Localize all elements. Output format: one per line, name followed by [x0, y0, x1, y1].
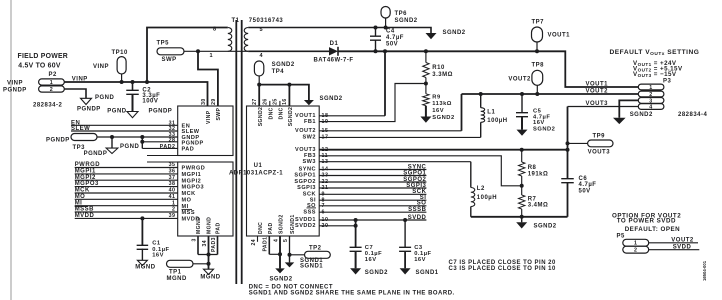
net label SGPO2: [319, 181, 426, 183]
svg-text:PAD: PAD: [215, 222, 221, 234]
net label SO: [319, 205, 426, 207]
svg-text:SWP: SWP: [216, 107, 222, 120]
capacitor C1: [140, 216, 144, 220]
wire SGND2 bottom rail: [471, 216, 568, 218]
wire VOUT2 pin: [319, 130, 461, 132]
svg-text:PAD2: PAD2: [160, 144, 176, 150]
wire VOUT2 rail: [462, 93, 639, 95]
resistor R9: [425, 84, 427, 94]
svg-text:3: 3: [191, 238, 197, 241]
svg-text:1: 1: [210, 53, 214, 59]
svg-text:SGND2: SGND2: [533, 126, 555, 132]
svg-text:SGND2: SGND2: [630, 112, 653, 118]
svg-text:113kΩ: 113kΩ: [432, 101, 452, 107]
svg-text:282834-4: 282834-4: [678, 112, 707, 118]
svg-text:SGND2: SGND2: [443, 30, 466, 36]
svg-text:PAD1: PAD1: [263, 237, 269, 252]
ground PGND at C2: [127, 112, 138, 118]
svg-text:SGND2: SGND2: [269, 277, 292, 283]
svg-text:SGPO1: SGPO1: [294, 173, 316, 179]
svg-text:U1: U1: [254, 163, 263, 169]
svg-text:50V: 50V: [386, 42, 398, 48]
capacitor C7: [355, 220, 357, 247]
svg-text:FIELD POWER: FIELD POWER: [18, 53, 69, 60]
svg-text:L2: L2: [477, 186, 485, 192]
wire MGND join: [198, 254, 218, 256]
svg-text:29: 29: [211, 98, 217, 104]
svg-text:TP2: TP2: [309, 246, 322, 252]
ground SGND2 at pin4: [275, 268, 285, 273]
net label SGPO1: [319, 175, 426, 177]
svg-text:SGPI3: SGPI3: [297, 185, 316, 191]
svg-text:SWP: SWP: [162, 57, 177, 63]
svg-text:34: 34: [202, 240, 208, 246]
svg-text:41: 41: [169, 194, 176, 200]
resistor R7: [521, 186, 523, 195]
ground SGND2 at pin5 rail: [426, 33, 437, 39]
svg-text:SSS: SSS: [303, 209, 316, 215]
wire T1 pin1 to TP5 and SWP pin: [184, 50, 248, 52]
svg-text:191kΩ: 191kΩ: [528, 172, 549, 178]
svg-text:PGND: PGND: [120, 144, 139, 150]
svg-text:SGND2: SGND2: [534, 224, 557, 230]
svg-text:PAD3: PAD3: [211, 237, 217, 252]
svg-text:16504-001: 16504-001: [702, 260, 707, 281]
svg-text:3.4MΩ: 3.4MΩ: [528, 203, 549, 209]
svg-text:32: 32: [169, 126, 176, 132]
svg-text:C6: C6: [579, 176, 588, 182]
svg-text:PGNDP: PGNDP: [84, 151, 108, 157]
svg-text:SGND1: SGND1: [300, 264, 323, 270]
svg-text:C7 IS PLACED CLOSE TO PIN 20: C7 IS PLACED CLOSE TO PIN 20: [449, 260, 557, 266]
wire VOUT1 rail: [338, 51, 638, 87]
svg-text:VOUT1: VOUT1: [586, 82, 609, 88]
svg-text:VOUT3: VOUT3: [588, 150, 611, 156]
svg-text:DEFAULT: OPEN: DEFAULT: OPEN: [625, 226, 680, 233]
diode D1: [248, 50, 329, 52]
svg-text:28: 28: [169, 137, 176, 143]
svg-text:4: 4: [260, 53, 264, 59]
svg-text:TP6: TP6: [395, 11, 408, 17]
test point TP2: [290, 254, 305, 256]
svg-text:25: 25: [272, 98, 278, 104]
svg-text:L1: L1: [487, 109, 495, 115]
svg-text:VINP: VINP: [93, 64, 109, 70]
test point TP1: [167, 260, 194, 267]
svg-text:R7: R7: [528, 196, 537, 202]
wire VOUT3 vertical: [567, 107, 569, 179]
svg-text:PGNDP: PGNDP: [149, 108, 173, 114]
svg-text:SVDD: SVDD: [673, 244, 692, 250]
op-amp U1 left box A: [178, 106, 233, 156]
svg-text:16V: 16V: [365, 257, 377, 263]
ground MGND at TP1: [204, 269, 214, 274]
net label SYNC: [319, 169, 426, 171]
net label SVDD at P5: [649, 249, 700, 251]
svg-text:MGPO3: MGPO3: [182, 185, 205, 191]
ground PGND at TP3: [111, 137, 113, 148]
svg-text:TP7: TP7: [532, 20, 545, 26]
svg-text:R8: R8: [528, 165, 537, 171]
svg-text:PGNDP: PGNDP: [46, 138, 70, 144]
ground MGND at C1: [137, 260, 147, 265]
ground SGND2 at P3: [613, 118, 626, 124]
svg-text:SGPI3: SGPI3: [406, 183, 426, 189]
ground SGND1 at pin5: [289, 255, 291, 263]
wire VOUT3 rail: [319, 149, 567, 151]
svg-text:PWRGD: PWRGD: [182, 166, 206, 172]
svg-text:DNC: DNC: [268, 107, 274, 119]
wire FB1 to divider: [319, 84, 426, 122]
svg-text:4.7µF: 4.7µF: [386, 35, 404, 41]
ground PGND at P2: [81, 98, 92, 104]
svg-text:16V: 16V: [533, 120, 545, 126]
svg-text:TP3: TP3: [73, 145, 86, 151]
wire VOUT1 pin to rail: [319, 115, 385, 117]
svg-text:FB1: FB1: [304, 119, 316, 125]
svg-text:100V: 100V: [142, 99, 158, 105]
transformer T1 secondary winding: [244, 28, 248, 52]
svg-text:4.5V TO 60V: 4.5V TO 60V: [18, 62, 61, 69]
svg-text:SSSB: SSSB: [408, 207, 426, 213]
svg-text:38: 38: [169, 181, 176, 187]
svg-text:SGND2: SGND2: [320, 96, 343, 102]
svg-text:SGND2: SGND2: [395, 18, 418, 24]
svg-text:P2: P2: [49, 72, 57, 78]
svg-text:PAD: PAD: [268, 222, 274, 234]
wire PGNDP pin 28: [141, 137, 143, 148]
svg-text:SVDD: SVDD: [408, 215, 427, 221]
svg-text:VOUT2: VOUT2: [671, 237, 694, 243]
resistor R10: [424, 49, 428, 53]
svg-text:TP5: TP5: [157, 41, 170, 47]
svg-text:R10: R10: [432, 65, 445, 71]
svg-text:SW2: SW2: [302, 135, 316, 141]
wire VINP to T1 pin8: [145, 80, 149, 84]
ground SGND2 at R9: [420, 117, 431, 123]
svg-text:VINP: VINP: [72, 77, 88, 83]
svg-text:VOUT1: VOUT1: [548, 32, 571, 38]
svg-text:PGND: PGND: [107, 109, 126, 115]
ground SGND2 at C5: [517, 130, 528, 136]
resistor R8: [521, 150, 523, 162]
net label SI: [319, 199, 426, 201]
test point TP4: [254, 61, 263, 76]
svg-text:PGND: PGND: [95, 95, 114, 101]
net label SGPI3: [319, 187, 426, 189]
wire FB3 to divider: [319, 156, 522, 186]
wire SVDD2 pin: [319, 225, 355, 227]
svg-text:3.3MΩ: 3.3MΩ: [432, 72, 453, 78]
svg-text:16: 16: [282, 98, 288, 104]
net label SVDD: [319, 219, 426, 221]
capacitor C2: [131, 80, 135, 84]
svg-text:37: 37: [169, 175, 176, 181]
svg-text:DEFAULT VOUTx SETTING: DEFAULT VOUTx SETTING: [610, 49, 700, 57]
wire PAD2: [142, 147, 177, 149]
svg-text:BAT46W-7-F: BAT46W-7-F: [313, 58, 353, 64]
svg-text:16V: 16V: [152, 253, 164, 259]
svg-text:1: 1: [649, 85, 652, 91]
svg-text:2: 2: [172, 207, 175, 213]
svg-text:282834-2: 282834-2: [33, 103, 62, 109]
svg-text:PGNDP: PGNDP: [77, 107, 101, 113]
inductor L1: [480, 122, 482, 137]
svg-text:4.7µF: 4.7µF: [579, 182, 597, 188]
svg-text:DNC: DNC: [258, 222, 264, 234]
svg-text:VINP: VINP: [7, 80, 23, 86]
op-amp U1 left box B: [178, 162, 233, 236]
svg-text:VINP: VINP: [206, 110, 212, 124]
svg-text:TP9: TP9: [593, 134, 606, 140]
capacitor C4: [374, 26, 378, 30]
wire VINP rail: [64, 82, 207, 106]
ground SGND1 at C3: [400, 268, 411, 274]
svg-text:100µH: 100µH: [477, 195, 497, 201]
svg-text:1: 1: [172, 200, 175, 206]
svg-text:MO: MO: [182, 197, 192, 203]
ground SGND2 at C7: [350, 268, 361, 274]
U1 box divider extension lines: [147, 155, 178, 157]
svg-text:MGPI1: MGPI1: [182, 172, 202, 178]
svg-text:SW3: SW3: [302, 159, 316, 165]
svg-text:VOUT2: VOUT2: [295, 128, 316, 134]
wire TP3 to GNDP pin: [97, 136, 178, 138]
svg-text:MGND: MGND: [206, 217, 212, 234]
svg-text:30: 30: [201, 98, 207, 104]
transformer T1 primary winding: [228, 28, 232, 52]
svg-text:8: 8: [213, 27, 217, 33]
svg-text:SGND2: SGND2: [279, 214, 285, 234]
svg-text:PGNDP: PGNDP: [3, 88, 27, 94]
svg-text:D1: D1: [330, 41, 339, 47]
svg-text:750316743: 750316743: [249, 18, 284, 24]
test point TP6: [381, 7, 390, 19]
svg-text:SGND2: SGND2: [272, 62, 295, 68]
svg-text:R9: R9: [432, 94, 440, 100]
svg-text:SGND2: SGND2: [258, 107, 264, 127]
svg-text:1: 1: [50, 80, 53, 86]
svg-text:MGND: MGND: [196, 217, 202, 234]
svg-text:MGND: MGND: [167, 276, 187, 282]
capacitor C6: [561, 179, 574, 183]
svg-text:40: 40: [169, 188, 176, 194]
svg-text:SGND2: SGND2: [365, 270, 388, 276]
capacitor C5: [520, 92, 524, 96]
svg-text:P5: P5: [617, 233, 625, 239]
svg-text:16V: 16V: [414, 257, 426, 263]
svg-text:SGND1: SGND1: [416, 270, 439, 276]
wire SGND2 top pins: [257, 83, 261, 87]
svg-text:4: 4: [649, 105, 652, 111]
svg-text:24: 24: [251, 239, 257, 245]
net label SCK: [319, 193, 426, 195]
svg-text:P3: P3: [663, 78, 671, 84]
svg-text:PGNDP: PGNDP: [182, 140, 204, 146]
svg-text:35: 35: [169, 162, 176, 168]
wire PAD1 to SGND2: [269, 253, 280, 255]
svg-text:TP1: TP1: [169, 269, 182, 275]
svg-text:26: 26: [262, 98, 268, 104]
svg-text:C4: C4: [386, 29, 395, 35]
svg-text:MGND: MGND: [135, 265, 155, 271]
wire SW2 pin to L1: [319, 136, 481, 138]
svg-text:16V: 16V: [432, 108, 444, 114]
wire VOUT3 to P3: [568, 106, 639, 108]
wire T1 pin5 rail: [248, 28, 431, 34]
transformer T1 core / isolation barrier: [235, 20, 237, 284]
net label VOUT2 at P5: [649, 242, 698, 244]
svg-text:SGND1 AND SGND2 SHARE THE SAME: SGND1 AND SGND2 SHARE THE SAME PLANE IN …: [249, 291, 455, 297]
svg-text:100µH: 100µH: [487, 118, 507, 124]
svg-text:27: 27: [252, 98, 258, 104]
svg-text:4: 4: [273, 239, 279, 242]
wire P2 pin2 to PGND: [64, 89, 86, 98]
svg-text:MSS: MSS: [182, 210, 196, 216]
svg-text:50V: 50V: [579, 188, 591, 194]
svg-text:SGPO1: SGPO1: [403, 170, 426, 176]
svg-text:SGND2: SGND2: [288, 107, 294, 127]
inductor L2: [470, 162, 472, 188]
svg-text:SO: SO: [417, 201, 427, 207]
svg-text:VOUT2: VOUT2: [586, 89, 609, 95]
svg-text:MI: MI: [182, 204, 189, 210]
svg-text:C3 IS PLACED CLOSE TO PIN 10: C3 IS PLACED CLOSE TO PIN 10: [449, 266, 557, 272]
svg-text:MGND: MGND: [200, 275, 220, 281]
svg-text:36: 36: [169, 169, 176, 175]
ground SGND2 at bottom rail: [521, 217, 523, 223]
svg-text:TP10: TP10: [112, 50, 128, 56]
svg-text:TP4: TP4: [272, 69, 285, 75]
svg-text:DNC: DNC: [278, 107, 284, 119]
svg-text:39: 39: [169, 213, 176, 219]
net label SSSB: [319, 211, 426, 213]
svg-text:5: 5: [283, 239, 289, 242]
ground SGND2 right of T1: [304, 100, 314, 105]
svg-text:TO POWER SVDD: TO POWER SVDD: [617, 218, 676, 225]
svg-text:MCK: MCK: [182, 191, 196, 197]
svg-text:VOUT3: VOUT3: [586, 101, 609, 107]
svg-text:2: 2: [634, 248, 637, 254]
wire P3 pin3 ground: [619, 100, 638, 117]
svg-text:ADP1031ACPZ-1: ADP1031ACPZ-1: [229, 171, 283, 177]
svg-text:VOUT3 = −15V: VOUT3 = −15V: [633, 71, 677, 78]
svg-text:C1: C1: [152, 241, 161, 247]
page border line: [10, 0, 12, 300]
svg-text:VOUT2: VOUT2: [508, 77, 531, 83]
svg-text:TP8: TP8: [532, 63, 545, 69]
svg-text:MGPI2: MGPI2: [182, 178, 202, 184]
svg-text:SGND2: SGND2: [432, 115, 454, 121]
wire SW3 to L2: [319, 161, 471, 163]
svg-text:2: 2: [50, 87, 53, 93]
svg-text:PAD: PAD: [182, 147, 195, 153]
svg-text:SVDD2: SVDD2: [295, 223, 316, 229]
capacitor C3: [404, 220, 406, 247]
op-amp U1 right box: [247, 106, 320, 236]
svg-text:VOUT3: VOUT3: [295, 147, 316, 153]
